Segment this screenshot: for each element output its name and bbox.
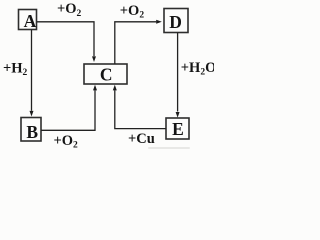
svg-text:B: B [26,122,38,142]
svg-text:E: E [172,119,184,139]
svg-text:A: A [24,11,37,31]
svg-text:C: C [100,64,113,84]
svg-text:+H2: +H2 [3,60,28,78]
svg-text:+Cu: +Cu [128,131,155,147]
svg-text:+O2: +O2 [120,3,145,21]
svg-text:+O2: +O2 [54,133,79,151]
svg-text:+O2: +O2 [57,1,82,19]
svg-text:D: D [169,12,182,32]
svg-text:+H2O: +H2O [181,60,214,78]
